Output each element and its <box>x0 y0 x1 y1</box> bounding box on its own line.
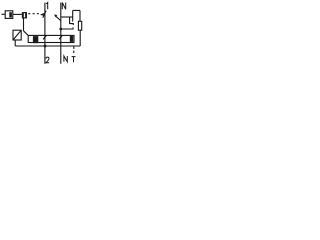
conductor 1 (L pole) <box>44 3 46 64</box>
top wire to resistor <box>73 9 80 11</box>
horizontal wire y=46 <box>15 45 80 47</box>
junction dot on conductor 1 <box>44 45 47 48</box>
resistor <box>78 21 81 30</box>
resistor top lead <box>79 10 81 21</box>
label T (bottom) <box>72 57 76 63</box>
element B (coupling element) <box>22 13 26 18</box>
button upper feed <box>70 17 74 25</box>
test button fixed stem <box>72 10 74 21</box>
trip coil C (rect with diagonal) <box>13 30 21 40</box>
label N (bottom) <box>64 56 67 62</box>
box A (trip mechanism) <box>5 11 13 19</box>
linkage arrowhead at pole N <box>54 14 57 17</box>
label 1 (top) <box>46 3 48 10</box>
winding slash at conductor N <box>59 35 63 39</box>
resistor bottom lead <box>79 30 81 46</box>
box A inner bar <box>9 12 12 17</box>
wire A to B <box>13 13 22 15</box>
toroid right winding block <box>70 36 73 42</box>
wire stub left of box A <box>2 13 6 15</box>
label 2 (bottom) <box>46 57 49 63</box>
dashed mechanical linkage <box>28 13 41 15</box>
wire C down <box>14 40 16 46</box>
contact blade pole 1 <box>43 11 46 18</box>
conductor N <box>60 3 62 64</box>
contact blade pole N <box>55 15 61 20</box>
terminal labels <box>46 3 76 63</box>
junction dot on N <box>59 28 62 31</box>
wire N dot to test button lower contact <box>61 27 73 29</box>
diagonal wire to transformer corner <box>24 31 29 36</box>
N tap wire upper <box>61 16 73 18</box>
wire B down <box>23 18 25 31</box>
test actuator dashes <box>73 47 75 55</box>
toroid transformer rectangle <box>28 35 74 42</box>
winding slash at conductor 1 <box>43 35 47 39</box>
linkage arrowhead at pole 1 <box>40 13 44 16</box>
toroid left winding block <box>33 36 38 43</box>
label N (top) <box>62 3 65 10</box>
